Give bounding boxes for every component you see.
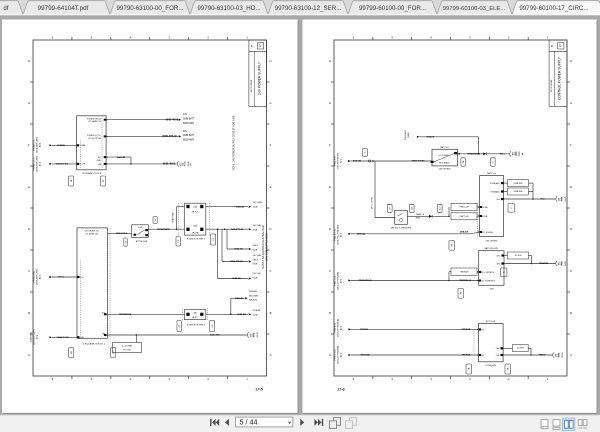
svg-text:H: H	[570, 59, 572, 63]
svg-text:W1m: W1m	[540, 199, 545, 201]
svg-text:BELGMG: BELGMG	[249, 295, 259, 297]
svg-text:17-6: 17-6	[337, 388, 345, 392]
svg-text:W4B-4TB-W: W4B-4TB-W	[162, 135, 177, 138]
svg-text:C: C	[269, 269, 271, 273]
svg-text:PWRB CTL: PWRB CTL	[34, 139, 36, 151]
svg-text:4WB (A): 4WB (A)	[357, 232, 366, 235]
svg-text:D: D	[329, 227, 331, 231]
svg-text:BRASS: BRASS	[427, 135, 435, 138]
svg-text:W4B-4TB-4B: W4B-4TB-4B	[230, 260, 243, 263]
svg-text:4WB WH: 4WB WH	[514, 183, 523, 185]
svg-text:E GESTION TMP 2: E GESTION TMP 2	[187, 324, 206, 326]
svg-text:BAT/O+B: BAT/O+B	[487, 172, 496, 175]
svg-text:W4B2 IF-EN: W4B2 IF-EN	[56, 163, 69, 166]
svg-text:W4B-4M-B: W4B-4M-B	[166, 118, 179, 121]
svg-text:H: H	[329, 59, 331, 63]
svg-text:4D WH: 4D WH	[517, 348, 524, 350]
svg-text:TERMINATE: TERMINATE	[157, 228, 170, 231]
svg-text:B: B	[270, 311, 272, 315]
svg-text:G: G	[329, 101, 331, 105]
svg-text:TRNW4B: TRNW4B	[462, 328, 471, 331]
svg-text:FWB (FL): FWB (FL)	[335, 323, 337, 333]
svg-text:(km): (km)	[341, 159, 343, 164]
svg-text:TRNW4B: TRNW4B	[360, 354, 370, 357]
svg-text:W1B: W1B	[559, 352, 561, 357]
svg-text:W1B PWR: W1B PWR	[173, 212, 175, 222]
svg-text:B: B	[190, 162, 192, 166]
svg-text:W1B: W1B	[253, 206, 258, 208]
svg-text:BCT/O+B: BCT/O+B	[486, 321, 496, 323]
svg-text:DYN4(G)M: DYN4(G)M	[486, 365, 497, 367]
svg-text:(km): (km)	[341, 279, 343, 284]
svg-text:W4B4M: W4B4M	[249, 291, 257, 293]
svg-text:TRNW4B LB: TRNW4B LB	[459, 279, 472, 282]
svg-text:C: C	[28, 269, 30, 273]
svg-text:TRNW4B: TRNW4B	[460, 271, 469, 273]
svg-text:CH1: CH1	[496, 199, 500, 201]
svg-text:17: 17	[558, 44, 562, 48]
svg-text:4+GMB: 4+GMB	[79, 145, 87, 147]
svg-text:FVGB(A4)-: FVGB(A4)-	[491, 190, 501, 193]
svg-text:4M: 4M	[98, 164, 101, 166]
svg-text:FWB (TL2): FWB (TL2)	[335, 349, 337, 360]
svg-text:B: B	[28, 311, 30, 315]
svg-text:(4M LEVER): (4M LEVER)	[439, 169, 451, 171]
svg-text:GND: GND	[97, 160, 102, 162]
svg-text:4B-4CL: 4B-4CL	[192, 211, 200, 213]
svg-text:TOTALW (-CYL): TOTALW (-CYL)	[87, 134, 102, 137]
svg-text:H: H	[269, 59, 271, 63]
svg-text:99799-60100-03_ELE...: 99799-60100-03_ELE...	[443, 6, 506, 12]
svg-text:GMG: GMG	[253, 245, 259, 247]
svg-text:24V POWER SUPPLY: 24V POWER SUPPLY	[258, 61, 262, 95]
svg-text:4B-4CL: 4B-4CL	[192, 317, 198, 319]
svg-text:F: F	[570, 143, 572, 147]
svg-text:CH2: CH2	[496, 348, 500, 350]
svg-text:1 EQUA/MOTODCK: 1 EQUA/MOTODCK	[82, 172, 102, 175]
svg-text:D: D	[28, 227, 30, 231]
svg-text:PWRB CTL 2: PWRB CTL 2	[34, 157, 36, 171]
svg-text:W1B: W1B	[253, 277, 258, 279]
svg-text:(TC 4M4B CS): (TC 4M4B CS)	[88, 121, 101, 123]
svg-text:F: F	[270, 143, 272, 147]
svg-text:(3G4+0V+TH8LMB): (3G4+0V+TH8LMB)	[338, 225, 340, 245]
svg-text:PWRB (FA): PWRB (FA)	[33, 271, 36, 283]
svg-text:4WB WH: 4WB WH	[514, 191, 523, 193]
svg-text:C: C	[329, 269, 331, 273]
svg-text:H: H	[28, 59, 30, 63]
svg-text:A: A	[28, 353, 30, 357]
svg-text:RGE 4B: RGE 4B	[353, 160, 362, 163]
svg-text:W4B-4B: W4B-4B	[236, 205, 245, 208]
svg-text:D: D	[269, 227, 271, 231]
svg-text:(TC 4M4B CS): (TC 4M4B CS)	[85, 234, 98, 236]
svg-text:TRNT PSUM: TRNT PSUM	[412, 161, 425, 163]
svg-text:4D WH: 4D WH	[515, 255, 522, 257]
svg-text:FVGB-: FVGB-	[482, 216, 488, 218]
svg-text:99799-60100-00_FOR...: 99799-60100-00_FOR...	[359, 5, 426, 12]
svg-text:(TC) AT VCHG: (TC) AT VCHG	[88, 137, 102, 140]
svg-text:4M (OMAS): 4M (OMAS)	[439, 161, 450, 164]
svg-text:TERMINATE: TERMINATE	[119, 313, 132, 316]
svg-text:W4B-4B: W4B-4B	[117, 156, 126, 159]
svg-text:99799-60100: 99799-60100	[551, 79, 553, 92]
svg-text:4FT-2 (S PA): 4FT-2 (S PA)	[371, 197, 374, 209]
svg-text:FWB (FL S): FWB (FL S)	[335, 229, 337, 241]
svg-text:4+42 GMB: 4+42 GMB	[122, 346, 132, 348]
svg-text:F: F	[329, 143, 331, 147]
svg-text:FW(T)-LB: FW(T)-LB	[459, 216, 469, 218]
svg-text:TOTALW VB (S): TOTALW VB (S)	[87, 117, 102, 120]
svg-text:RGB 4TB: RGB 4TB	[335, 156, 337, 166]
svg-text:E: E	[329, 185, 331, 189]
svg-text:NOTE : 24V POWER SUPPLY CIRCUI: NOTE : 24V POWER SUPPLY CIRCUIT FOR GMB	[233, 115, 236, 170]
svg-text:4B-LTA: 4B-LTA	[192, 232, 199, 235]
svg-text:VCC: VCC	[80, 277, 85, 279]
svg-text:17-5: 17-5	[255, 388, 263, 392]
svg-text:BAT/O+8: BAT/O+8	[440, 146, 449, 149]
svg-text:24V GN: 24V GN	[253, 273, 261, 275]
svg-text:NDB (FA): NDB (FA)	[30, 332, 33, 342]
svg-text:12 CH UNITBOX: 12 CH UNITBOX	[481, 281, 496, 283]
svg-text:FVGB+: FVGB+	[482, 207, 489, 209]
svg-text:TRNW4B: TRNW4B	[462, 354, 471, 357]
svg-text:(3G-RHYWHM): (3G-RHYWHM)	[338, 153, 340, 168]
svg-text:(AV GS2 4-THBGVHV): (AV GS2 4-THBGVHV)	[391, 226, 412, 229]
svg-text:GN42 IF-EN: GN42 IF-EN	[56, 336, 68, 339]
svg-text:TRNW4TBLB: TRNW4TBLB	[359, 279, 372, 282]
svg-text:W1B: W1B	[253, 332, 255, 337]
svg-text:24V GMG: 24V GMG	[253, 202, 263, 204]
svg-text:BAUDIS: BAUDIS	[249, 299, 258, 302]
svg-text:W4B-4TB-4: W4B-4TB-4	[116, 232, 128, 235]
svg-text:(km): (km)	[341, 326, 343, 331]
svg-text:(3G4+0VTH8LMB): (3G4+0VTH8LMB)	[338, 319, 340, 337]
svg-text:W4B-4B: W4B-4B	[232, 277, 241, 280]
svg-text:C: C	[570, 269, 572, 273]
svg-text:GND: GND	[565, 196, 567, 201]
svg-text:GND: GND	[80, 337, 85, 339]
svg-text:(3G4+0VTH8LMB): (3G4+0VTH8LMB)	[338, 346, 340, 364]
svg-text:TRNW4B: TRNW4B	[539, 262, 549, 265]
svg-text:GND: GND	[257, 332, 259, 337]
svg-text:E: E	[28, 185, 30, 189]
svg-text:99799-60100-17_CIRC...: 99799-60100-17_CIRC...	[519, 5, 588, 12]
svg-text:(3G4+BVC+ER): (3G4+BVC+ER)	[37, 156, 39, 172]
svg-text:B: B	[329, 311, 331, 315]
svg-text:G: G	[28, 101, 30, 105]
svg-text:CH1: CH1	[496, 355, 500, 357]
svg-text:(km): (km)	[341, 353, 343, 358]
svg-text:GMB BATT: GMB BATT	[183, 134, 195, 137]
svg-text:GND: GND	[562, 352, 564, 357]
svg-text:FW(T)-LB: FW(T)-LB	[459, 207, 469, 209]
svg-text:24V: 24V	[183, 114, 188, 116]
svg-text:W1B: W1B	[253, 314, 258, 316]
svg-text:FWB (TL): FWB (TL)	[335, 276, 337, 286]
svg-text:12 U UNITBOX: 12 U UNITBOX	[481, 272, 495, 274]
svg-text:W1-GB: W1-GB	[79, 164, 86, 166]
svg-text:4WB-4W: 4WB-4W	[460, 230, 468, 233]
svg-text:E: E	[270, 185, 272, 189]
svg-text:GND: GND	[565, 261, 567, 266]
svg-text:99790-63100-00_FOR...: 99790-63100-00_FOR...	[116, 5, 183, 12]
svg-text:(TC GS): (TC GS)	[123, 349, 131, 351]
svg-text:(3G4+BVC+ER): (3G4+BVC+ER)	[34, 329, 36, 345]
svg-text:E: E	[570, 185, 572, 189]
svg-text:W4B-4B: W4B-4B	[237, 313, 246, 316]
svg-text:24V GBL: 24V GBL	[253, 255, 263, 257]
svg-text:W1B PWR: W1B PWR	[183, 123, 194, 125]
svg-text:F: F	[28, 143, 30, 147]
svg-text:W1B: W1B	[253, 249, 258, 251]
svg-text:CH2: CH2	[496, 255, 500, 257]
svg-text:W4B-4B: W4B-4B	[234, 248, 243, 251]
svg-text:TANW LE: TANW LE	[416, 213, 425, 216]
svg-text:(3G4+0VTH8LMB): (3G4+0VTH8LMB)	[338, 272, 340, 290]
svg-text:W4B4B: W4B4B	[57, 144, 65, 147]
svg-text:(km): (km)	[40, 143, 42, 148]
svg-text:(3G4+BVC+ER): (3G4+BVC+ER)	[37, 137, 39, 153]
svg-text:4T/B4M: 4T/B4M	[253, 310, 261, 312]
svg-text:(km): (km)	[37, 335, 39, 340]
svg-text:W1B: W1B	[562, 261, 564, 266]
svg-text:A: A	[570, 353, 572, 357]
svg-text:W1B: W1B	[516, 151, 518, 156]
svg-text:99790-63100-03_HO...: 99790-63100-03_HO...	[197, 5, 261, 12]
svg-text:TANK: TANK	[407, 132, 410, 138]
svg-text:GMB BATT: GMB BATT	[183, 118, 195, 121]
svg-text:24V GBL: 24V GBL	[253, 225, 263, 227]
svg-text:A: A	[270, 353, 272, 357]
svg-text:W1B: W1B	[184, 161, 186, 166]
svg-text:W1B PWR: W1B PWR	[183, 140, 194, 142]
svg-text:1C: 1C	[103, 179, 105, 182]
svg-text:4M: 4M	[481, 355, 484, 357]
svg-text:W4B-4M-B: W4B-4M-B	[163, 163, 176, 166]
svg-text:df: df	[3, 5, 8, 12]
svg-text:5 / 44: 5 / 44	[240, 417, 258, 426]
svg-text:ATTRB GSE: ATTRB GSE	[136, 240, 148, 243]
svg-text:E3: E3	[180, 162, 184, 166]
svg-text:W1B: W1B	[562, 196, 564, 201]
svg-text:A: A	[329, 353, 331, 357]
svg-text:GMG: GMG	[253, 259, 259, 261]
svg-text:1 EQUA/MOTODCK 1: 1 EQUA/MOTODCK 1	[83, 342, 105, 345]
svg-text:24V: 24V	[183, 131, 188, 133]
svg-text:G: G	[570, 101, 572, 105]
svg-text:W1B: W1B	[253, 229, 258, 231]
svg-text:W1m: W1m	[500, 153, 505, 155]
svg-text:F/W DAILY: F/W DAILY	[404, 129, 407, 140]
svg-text:(4M LEVER): (4M LEVER)	[486, 241, 498, 243]
svg-text:W4B-4TB: W4B-4TB	[210, 334, 220, 337]
svg-text:W4B-4TB-4B: W4B-4TB-4B	[231, 228, 244, 231]
svg-text:W1-4: W1-4	[58, 276, 64, 279]
svg-text:W1B: W1B	[253, 264, 258, 266]
svg-text:99790-63100-12_SER...: 99790-63100-12_SER...	[275, 5, 342, 12]
svg-text:17: 17	[258, 44, 262, 48]
svg-text:99799-60100: 99799-60100	[251, 79, 253, 92]
svg-text:E GESTION TMP 2: E GESTION TMP 2	[187, 239, 206, 241]
svg-text:BAT/O(S)+M8: BAT/O(S)+M8	[485, 247, 499, 250]
svg-text:12V GB/WR GS: 12V GB/WR GS	[84, 231, 99, 233]
svg-text:FVGB(A4)+: FVGB(A4)+	[490, 182, 501, 185]
svg-text:(km): (km)	[40, 162, 42, 167]
svg-text:TRNW4: TRNW4	[360, 328, 369, 331]
svg-text:TRNW: TRNW	[539, 355, 546, 357]
svg-text:4GB: 4GB	[489, 289, 494, 291]
svg-text:(24V GMB SUPPLY W1B): (24V GMB SUPPLY W1B)	[266, 233, 269, 261]
svg-text:G: G	[269, 101, 271, 105]
svg-text:(km): (km)	[341, 233, 343, 238]
svg-text:(km): (km)	[40, 275, 42, 280]
svg-text:CONTROL POWER SUPPLY: CONTROL POWER SUPPLY	[558, 56, 562, 100]
svg-text:B: B	[570, 311, 572, 315]
svg-text:99799-64104T.pdf: 99799-64104T.pdf	[38, 5, 89, 12]
svg-text:4MM: 4MM	[416, 218, 421, 220]
svg-text:4Y1-4GVGA: 4Y1-4GVGA	[482, 231, 493, 234]
svg-text:(3G4+BVC+ER): (3G4+BVC+ER)	[37, 269, 39, 285]
svg-text:D: D	[570, 227, 572, 231]
svg-text:CH1: CH1	[496, 263, 500, 265]
svg-text:W4B-4B: W4B-4B	[235, 297, 243, 300]
